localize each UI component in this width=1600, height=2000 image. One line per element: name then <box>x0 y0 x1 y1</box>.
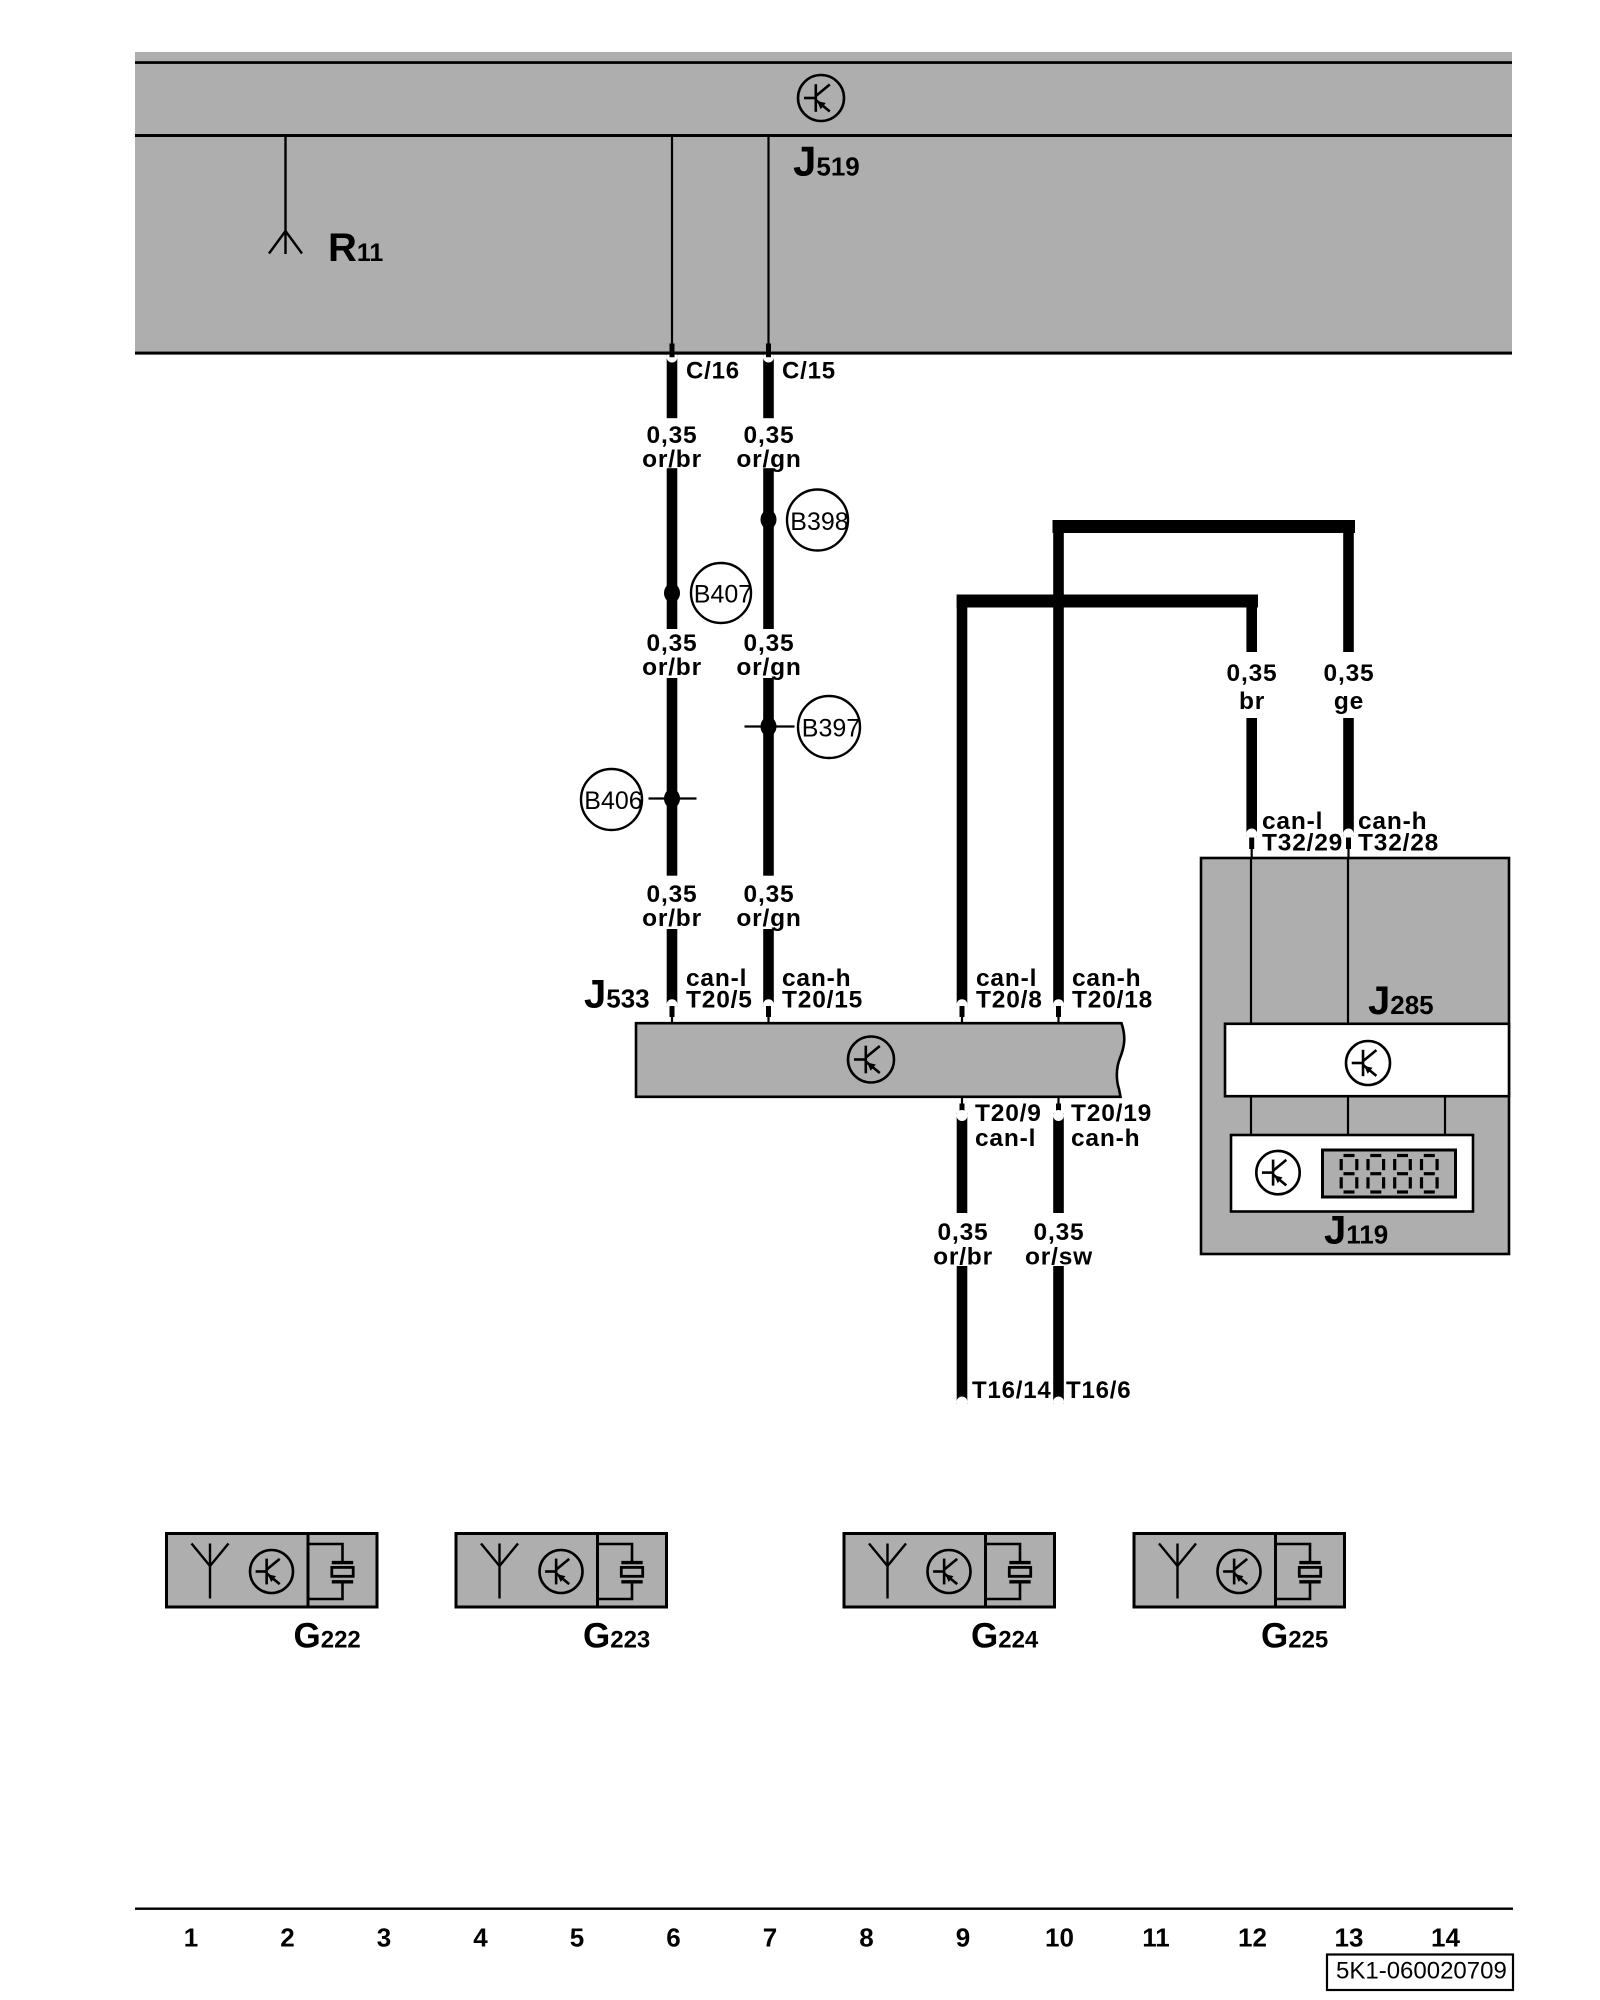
terminal T20/15 pin <box>766 1006 771 1017</box>
svg-text:G225: G225 <box>1261 1617 1328 1656</box>
svg-text:T20/8: T20/8 <box>976 987 1043 1014</box>
svg-text:or/gn: or/gn <box>736 654 801 681</box>
label 0,35 or/gn middle <box>736 630 801 681</box>
wire can-h trunk horizontal <box>1053 520 1356 533</box>
terminal T32/29 pin <box>1249 838 1254 850</box>
splice circle B397 <box>798 696 860 758</box>
svg-text:can-l: can-l <box>975 1125 1036 1152</box>
transponder section box in G225 <box>1276 1534 1345 1608</box>
wire can-h drop segment (ge) lower <box>1343 718 1354 840</box>
svg-text:12: 12 <box>1238 1923 1267 1953</box>
label can-h T32/28 <box>1358 808 1439 857</box>
svg-text:T20/18: T20/18 <box>1072 987 1153 1014</box>
splice tick B397 <box>745 725 795 727</box>
label 0,35 or/br lower <box>642 881 702 932</box>
control unit box J519 <box>135 52 1512 352</box>
svg-text:T20/19: T20/19 <box>1071 1100 1152 1127</box>
display unit box J119 <box>1231 1135 1473 1212</box>
transponder crystal symbol in G222 <box>309 1544 354 1599</box>
svg-text:6: 6 <box>666 1923 680 1953</box>
label 0,35 or/br middle <box>642 630 702 681</box>
terminal T20/8 notch <box>957 999 968 1010</box>
lead T32/29 inside J285 <box>1250 858 1252 1024</box>
seven segment digits 8888 <box>1341 1156 1437 1193</box>
label 0,35 or/sw (T16/6 wire) <box>1025 1219 1093 1271</box>
lead 3 to J119 <box>1444 1096 1446 1135</box>
svg-text:B407: B407 <box>694 581 752 609</box>
svg-text:br: br <box>1239 688 1265 715</box>
wire 0,35 or/gn segment 3 <box>763 678 774 876</box>
svg-text:1: 1 <box>184 1923 198 1953</box>
terminal T20/5 lead <box>671 1017 673 1025</box>
wire 0,35 or/br to T16/14 segment 2 <box>957 1266 968 1408</box>
terminal T20/19 lead <box>1057 1097 1059 1105</box>
svg-text:B398: B398 <box>790 508 848 536</box>
aerial reading coil box G223 <box>456 1534 667 1608</box>
aerial reading coil box G225 <box>1134 1534 1345 1608</box>
wire can-l drop segment (br) upper <box>1246 595 1257 653</box>
grid scale numbers 1-14 <box>184 1923 1461 1953</box>
transponder crystal symbol in G224 <box>986 1544 1031 1599</box>
control unit box J285 <box>1201 858 1509 1254</box>
svg-text:ge: ge <box>1334 688 1364 715</box>
svg-text:13: 13 <box>1335 1923 1364 1953</box>
label 0,35 ge <box>1324 660 1375 715</box>
control unit symbol K in J285 <box>1346 1041 1390 1085</box>
svg-text:T20/15: T20/15 <box>782 987 863 1014</box>
wire can-l drop segment (br) lower <box>1246 718 1257 840</box>
bus bar line lower <box>135 134 1512 137</box>
svg-text:0,35: 0,35 <box>744 630 795 657</box>
terminal T20/8 lead <box>961 1017 963 1025</box>
label 0,35 br <box>1227 660 1278 715</box>
wire 0,35 or/br segment 1 <box>667 352 678 419</box>
terminal T32/28 pin <box>1346 838 1351 850</box>
wire 0,35 or/br to T16/14 segment 1 <box>957 1110 968 1213</box>
svg-text:7: 7 <box>763 1923 777 1953</box>
terminal T20/18 notch <box>1053 999 1064 1010</box>
label T20/9 can-l <box>975 1100 1042 1152</box>
svg-text:G222: G222 <box>294 1617 361 1656</box>
wire can-l trunk vertical <box>957 595 968 1007</box>
terminal T20/9 lead <box>961 1097 963 1105</box>
control unit symbol K in J533 <box>848 1037 894 1083</box>
splice circle B406 <box>581 769 643 830</box>
svg-text:0,35: 0,35 <box>1324 660 1375 687</box>
svg-text:T20/9: T20/9 <box>975 1100 1042 1127</box>
svg-text:0,35: 0,35 <box>1227 660 1278 687</box>
terminal C/15 pin <box>766 344 771 358</box>
svg-text:J533: J533 <box>584 973 650 1017</box>
transponder crystal symbol in G225 <box>1276 1544 1321 1599</box>
inner control unit window in J285 <box>1225 1024 1509 1096</box>
label T20/19 can-h <box>1071 1100 1152 1152</box>
terminal T20/19 pin <box>1056 1104 1061 1116</box>
svg-text:0,35: 0,35 <box>647 881 698 908</box>
terminal T20/18 pin <box>1056 1006 1061 1017</box>
svg-text:B397: B397 <box>802 715 860 743</box>
terminal T20/5 pin <box>670 1006 675 1017</box>
svg-text:14: 14 <box>1431 1923 1460 1953</box>
control unit symbol K in J119 <box>1256 1151 1299 1194</box>
transponder section box in G222 <box>308 1534 377 1608</box>
label can-l T20/5 <box>686 965 753 1014</box>
aerial symbol in G222 <box>192 1544 229 1599</box>
terminal T20/18 lead <box>1057 1017 1059 1025</box>
svg-text:T20/5: T20/5 <box>686 987 753 1014</box>
lead 2 to J119 <box>1347 1096 1349 1135</box>
wire 0,35 or/gn segment 4 <box>763 929 774 1010</box>
aerial symbol in G223 <box>481 1544 518 1599</box>
wire can-h trunk vertical <box>1053 520 1064 1007</box>
aerial R11 <box>269 136 302 254</box>
svg-text:2: 2 <box>280 1923 294 1953</box>
svg-text:10: 10 <box>1045 1923 1074 1953</box>
splice junction B398 <box>761 510 777 529</box>
diagnostic gateway box J533 (torn right edge) <box>636 1023 1124 1097</box>
label 0,35 or/gn lower <box>736 881 801 932</box>
svg-text:G224: G224 <box>971 1617 1039 1656</box>
label 0,35 or/br (T16/14 wire) <box>933 1219 993 1271</box>
wire 0,35 or/br segment 2 <box>667 468 678 629</box>
display bezel in J119 <box>1323 1150 1456 1197</box>
label can-l T32/29 <box>1262 808 1343 857</box>
wire can-l trunk horizontal <box>957 595 1258 608</box>
terminal T32/28 lead <box>1347 848 1349 859</box>
svg-text:11: 11 <box>1142 1923 1170 1953</box>
terminal T20/8 pin <box>960 1006 965 1017</box>
terminal C/16 pin <box>670 344 675 358</box>
terminal C/16 lead in J519 <box>671 137 673 345</box>
svg-text:or/br: or/br <box>642 654 702 681</box>
wire 0,35 or/sw to T16/6 segment 2 <box>1053 1266 1064 1408</box>
svg-text:C/15: C/15 <box>782 358 836 385</box>
control unit symbol K in G224 <box>928 1550 971 1593</box>
control unit symbol K in G223 <box>540 1550 583 1593</box>
svg-text:0,35: 0,35 <box>938 1219 989 1246</box>
transponder section box in G223 <box>598 1534 667 1608</box>
control unit symbol K in G222 <box>250 1550 293 1593</box>
svg-text:4: 4 <box>473 1923 488 1953</box>
splice circle B407 <box>691 563 752 623</box>
label 0,35 or/br upper <box>642 422 702 473</box>
grid scale line <box>135 1908 1513 1910</box>
diagram number box <box>1327 1955 1513 1991</box>
control unit symbol K in G225 <box>1218 1550 1261 1593</box>
svg-text:0,35: 0,35 <box>647 630 698 657</box>
svg-text:9: 9 <box>956 1923 970 1953</box>
svg-text:T32/28: T32/28 <box>1358 830 1439 857</box>
svg-text:T16/6: T16/6 <box>1066 1377 1131 1404</box>
terminal T32/29 lead <box>1251 848 1253 859</box>
svg-text:5K1-060020709: 5K1-060020709 <box>1336 1958 1507 1985</box>
lead 1 to J119 <box>1250 1096 1252 1135</box>
aerial reading coil box G222 <box>167 1534 378 1608</box>
label can-l T20/8 <box>976 965 1043 1014</box>
splice junction B406 <box>664 789 680 808</box>
bus bar line upper <box>135 61 1512 64</box>
svg-text:5: 5 <box>570 1923 584 1953</box>
label can-h T20/18 <box>1072 965 1153 1014</box>
svg-text:or/br: or/br <box>642 905 702 932</box>
J519 box bottom border <box>135 352 1512 355</box>
wire 0,35 or/gn segment 1 <box>763 352 774 419</box>
transponder crystal symbol in G223 <box>598 1544 643 1599</box>
J519 box bottom border restamp <box>640 352 800 355</box>
wire can-h drop segment (ge) upper <box>1343 520 1354 652</box>
terminal T20/9 pin <box>960 1104 965 1116</box>
lead T32/28 inside J285 <box>1347 858 1349 1024</box>
svg-text:can-h: can-h <box>1071 1125 1140 1152</box>
splice circle B398 <box>787 490 849 551</box>
terminal C/15 lead in J519 <box>767 137 769 345</box>
terminal T20/15 lead <box>767 1017 769 1025</box>
splice junction B407 <box>664 584 680 603</box>
svg-text:3: 3 <box>377 1923 391 1953</box>
wire 0,35 or/br segment 4 <box>667 929 678 1010</box>
wire 0,35 or/gn segment 2 <box>763 468 774 629</box>
aerial symbol in G224 <box>869 1544 906 1599</box>
svg-text:T32/29: T32/29 <box>1262 830 1343 857</box>
svg-text:0,35: 0,35 <box>744 422 795 449</box>
aerial reading coil box G224 <box>844 1534 1055 1608</box>
wire 0,35 or/br segment 3 <box>667 678 678 876</box>
control unit symbol K in J519 <box>798 75 844 121</box>
svg-text:T16/14: T16/14 <box>972 1377 1052 1404</box>
label can-h T20/15 <box>782 965 863 1014</box>
svg-text:or/gn: or/gn <box>736 905 801 932</box>
svg-text:G223: G223 <box>583 1617 650 1656</box>
aerial symbol in G225 <box>1159 1544 1196 1599</box>
label 0,35 or/gn upper <box>736 422 801 473</box>
wire 0,35 or/sw to T16/6 segment 1 <box>1053 1110 1064 1213</box>
svg-text:C/16: C/16 <box>686 358 740 385</box>
svg-text:B406: B406 <box>584 787 642 815</box>
splice tick B406 <box>649 797 697 799</box>
svg-text:0,35: 0,35 <box>647 422 698 449</box>
splice junction B397 <box>761 717 777 736</box>
svg-text:0,35: 0,35 <box>744 881 795 908</box>
svg-text:0,35: 0,35 <box>1034 1219 1085 1246</box>
transponder section box in G224 <box>986 1534 1055 1608</box>
svg-text:8: 8 <box>859 1923 873 1953</box>
